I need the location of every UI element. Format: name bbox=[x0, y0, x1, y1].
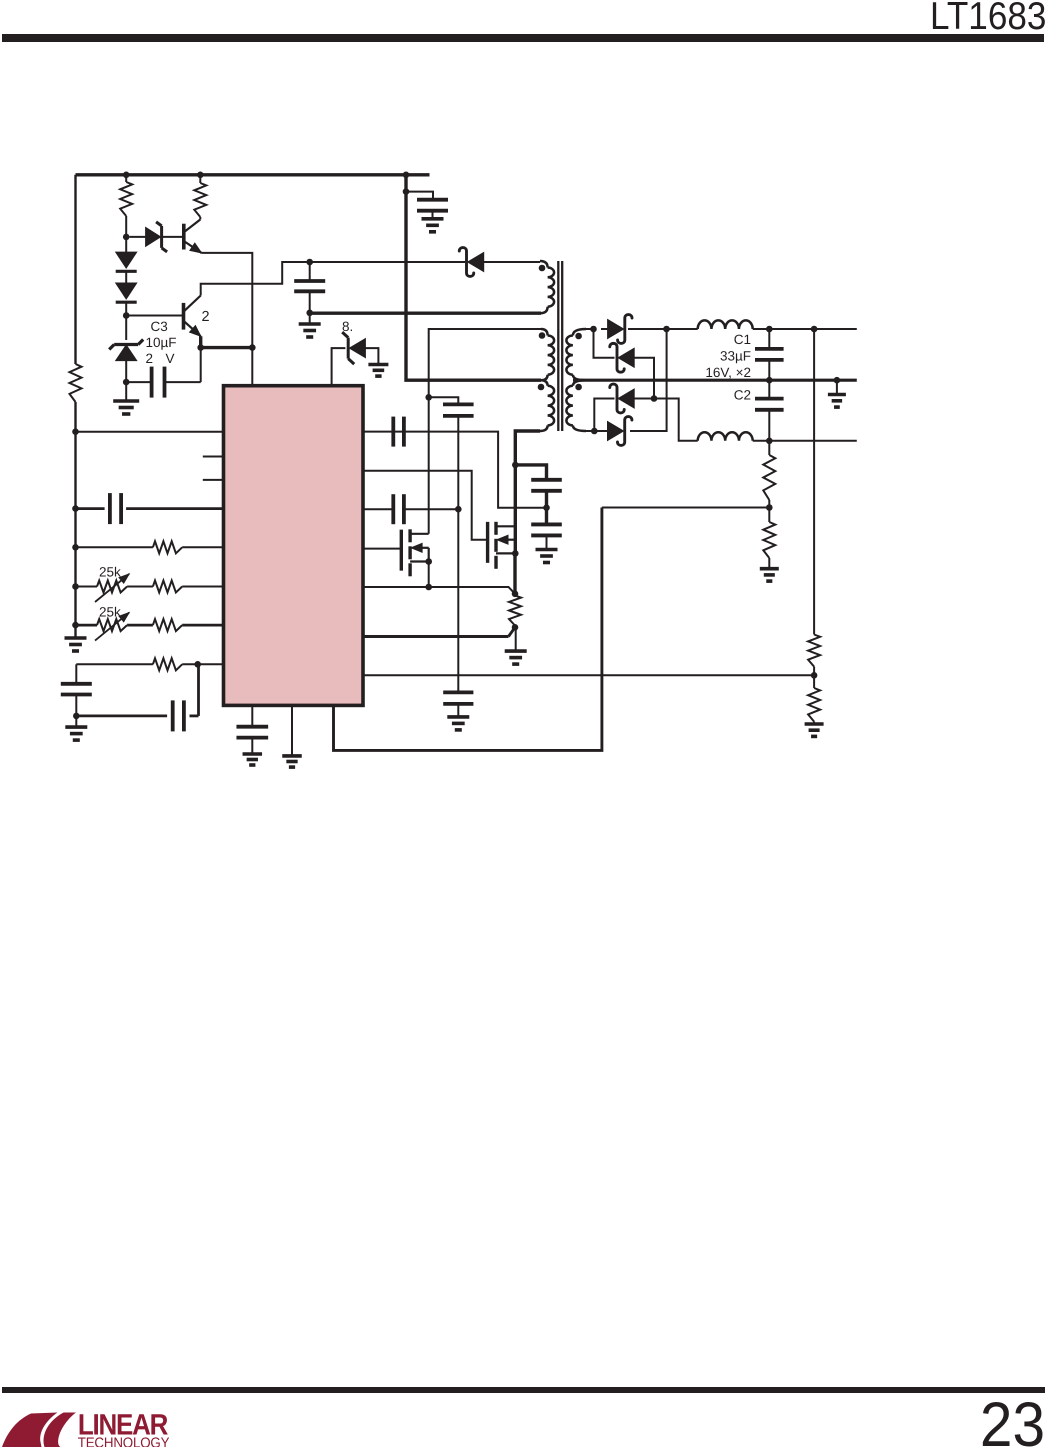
pot 25k row7 bbox=[97, 619, 127, 631]
node bus/row7 bbox=[72, 622, 79, 629]
resistor Rs bbox=[509, 596, 521, 626]
transformer winding W2 bbox=[541, 329, 548, 336]
wire M1 gate bbox=[363, 548, 401, 550]
capacitor row A bbox=[391, 417, 395, 447]
node top rail / input bypass bbox=[403, 172, 410, 179]
diode D7 bbox=[618, 389, 634, 408]
capacitor drain snubber 1 bbox=[531, 478, 562, 482]
resistor divider1 top bbox=[763, 455, 775, 500]
capacitor clamp snubber bbox=[309, 262, 311, 281]
resistor divider2 bottom bbox=[808, 688, 820, 722]
transformer winding W5 bbox=[573, 380, 586, 386]
wire M1 source down bbox=[428, 562, 430, 588]
wire sec bottom lead bbox=[586, 430, 594, 432]
node W2 damper tap bbox=[425, 394, 432, 401]
diode D5 bbox=[608, 320, 624, 339]
wire Q2 base bbox=[126, 315, 183, 317]
diode D3 bbox=[116, 283, 137, 299]
ground below zener bbox=[113, 399, 139, 403]
svg-text:10µF: 10µF bbox=[146, 335, 177, 350]
wire row D bbox=[363, 586, 429, 588]
resistor divider1 bottom bbox=[763, 522, 775, 558]
node L2 out bbox=[766, 438, 773, 445]
resistor row5 bbox=[76, 546, 153, 548]
node row8/cap bbox=[194, 661, 201, 668]
node Rs top bbox=[512, 591, 519, 598]
node bus/row6 bbox=[72, 583, 79, 590]
capacitor drain snubber 2 bbox=[531, 523, 562, 527]
ground damper chain bbox=[447, 715, 469, 719]
node bus/row1 bbox=[72, 428, 79, 435]
capacitor left RC small bbox=[76, 715, 167, 718]
ground left RC bbox=[65, 725, 87, 729]
node W4 top bbox=[590, 326, 597, 333]
node M2 source bbox=[512, 550, 519, 557]
node top rail / R2 bbox=[197, 172, 204, 179]
transformer winding W1 bbox=[540, 261, 548, 268]
svg-text:V: V bbox=[166, 351, 175, 366]
svg-text:2: 2 bbox=[202, 309, 210, 325]
wire M2 source to Rs bbox=[513, 553, 516, 593]
diode D2 bbox=[116, 252, 137, 268]
resistor R3 (left bus) bbox=[70, 364, 82, 402]
wire damper chain bbox=[457, 416, 459, 693]
resistor divider2 top bbox=[808, 635, 820, 667]
wire emitter node to IC bbox=[251, 348, 253, 386]
wire row A link bbox=[363, 432, 547, 508]
wire D7 anode to L2 bbox=[634, 399, 698, 441]
phase dot W3 bbox=[538, 384, 545, 391]
node M1 source bbox=[425, 558, 432, 565]
resistor row6 bbox=[153, 581, 182, 593]
node Rs bottom bbox=[512, 624, 519, 631]
node divider1 bbox=[766, 504, 773, 511]
wire W3 bottom to M2 drain bbox=[515, 431, 540, 553]
ground left bus bbox=[65, 636, 87, 640]
node diode chain / Q2 base bbox=[123, 312, 130, 319]
svg-text:16V, ×2: 16V, ×2 bbox=[705, 365, 751, 380]
node VIN bypass tap bbox=[403, 188, 410, 195]
inductor L2 bbox=[698, 432, 753, 441]
zener D10 bbox=[349, 339, 365, 358]
node W5 bottom bbox=[591, 428, 598, 435]
wire Q2 emitter to node bbox=[201, 336, 253, 347]
wire D7 cathode bbox=[594, 399, 614, 432]
MOSFET M2 bbox=[486, 522, 489, 563]
wire VIN vertical bbox=[406, 175, 541, 380]
pot 25k row6 bbox=[97, 581, 127, 593]
IC U1 LT1683 bbox=[224, 386, 364, 706]
footer logo Linear Technology bbox=[2, 1408, 170, 1447]
wire D6 anode bbox=[634, 358, 654, 399]
phase dot W1 bbox=[539, 265, 546, 272]
transformer winding W4 bbox=[573, 329, 586, 336]
node damper chain row C bbox=[455, 506, 462, 513]
svg-text:25k: 25k bbox=[99, 605, 121, 620]
node top rail / R1 bbox=[123, 172, 130, 179]
wire row E bbox=[363, 635, 509, 638]
phase dot W5 bbox=[575, 384, 582, 391]
svg-text:33µF: 33µF bbox=[720, 349, 751, 364]
node row D / M1 source bbox=[425, 584, 432, 591]
node bus/row5 bbox=[72, 544, 79, 551]
zener D4 bbox=[116, 345, 137, 361]
wire D6 branch bbox=[594, 329, 615, 358]
resistor row7 bbox=[153, 619, 182, 631]
svg-text:TECHNOLOGY: TECHNOLOGY bbox=[78, 1436, 170, 1447]
inductor L1 bbox=[698, 320, 753, 329]
wire divider2 mid bbox=[813, 667, 815, 688]
phase dot W2 bbox=[539, 332, 546, 339]
phase dot W4 bbox=[575, 333, 582, 340]
resistor row8 bbox=[76, 663, 153, 665]
wire left bus bbox=[74, 175, 76, 638]
node zener/C3 bbox=[123, 379, 130, 386]
svg-text:C1: C1 bbox=[734, 332, 751, 347]
capacitor input bypass bbox=[406, 192, 433, 200]
node bus/row4 bbox=[72, 505, 79, 512]
node drain snubber mid bbox=[543, 504, 550, 511]
node top rail bus bbox=[811, 326, 818, 333]
wire D8 out bbox=[630, 329, 667, 431]
wire zener anode to gnd bbox=[365, 348, 378, 364]
wire VIN top rail bbox=[76, 173, 430, 176]
wire Q1 emitter bbox=[202, 253, 253, 348]
wire sec top rail bbox=[586, 328, 594, 330]
transistor Q1 bbox=[182, 224, 186, 250]
wire divider1 link bbox=[602, 507, 769, 509]
wire FB right bbox=[363, 674, 814, 676]
capacitor row C bbox=[363, 508, 393, 510]
node divider2 FB bbox=[811, 672, 818, 679]
wire mid rail bbox=[573, 379, 857, 382]
ground divider1 bbox=[760, 567, 779, 571]
node D5 out bbox=[663, 326, 670, 333]
ground input bypass bbox=[422, 217, 444, 221]
svg-text:25k: 25k bbox=[99, 565, 121, 580]
wire low rail bbox=[753, 440, 857, 442]
capacitor C2 bbox=[768, 380, 770, 399]
node R1/zener bbox=[123, 234, 130, 241]
ground drain snubber bbox=[536, 548, 558, 552]
wire zener cathode to IC bbox=[332, 348, 346, 386]
wire IC bottom loop bbox=[334, 508, 602, 751]
wire Q2 collector bbox=[201, 262, 465, 296]
transistor Q2 bbox=[182, 303, 186, 330]
capacitor C3 bbox=[150, 367, 154, 398]
ground IC bottom 1 bbox=[243, 752, 262, 756]
ground clamp snubber bbox=[299, 322, 321, 326]
diode D8 bbox=[608, 422, 624, 441]
svg-text:2: 2 bbox=[146, 351, 154, 366]
capacitor damper bottom bbox=[443, 691, 473, 695]
wire W2 top to M1 drain bbox=[429, 329, 541, 534]
ground Rs bbox=[505, 649, 527, 653]
capacitor C1 bbox=[768, 329, 770, 349]
resistor R2 bbox=[194, 183, 206, 217]
node M2 drain snubber tap bbox=[512, 462, 519, 469]
node snubber cap top bbox=[306, 259, 313, 266]
resistor R1 bbox=[120, 182, 132, 216]
svg-text:8.: 8. bbox=[342, 319, 353, 334]
diode D6 bbox=[618, 348, 634, 367]
wire row B (M2 gate) bbox=[363, 471, 488, 540]
node L1 out bbox=[766, 326, 773, 333]
zener D1 bbox=[146, 227, 161, 246]
node emitter junction bbox=[249, 344, 256, 351]
svg-text:C2: C2 bbox=[734, 388, 751, 403]
wire pin row FB/run bbox=[76, 431, 224, 433]
node mid rail gnd tap bbox=[834, 377, 841, 384]
capacitor W2 damper bbox=[429, 397, 459, 404]
capacitor row4 bbox=[76, 507, 105, 510]
wire drain snubber top bbox=[515, 465, 546, 480]
ground divider2 bbox=[805, 722, 824, 726]
node mid rail C1C2 bbox=[766, 377, 773, 384]
node D6 D7 anode bbox=[651, 395, 658, 402]
ground mid rail bbox=[828, 393, 846, 397]
ground IC bottom 2 bbox=[291, 705, 293, 756]
wire clamp winding bottom bbox=[310, 312, 541, 315]
transformer core bbox=[557, 261, 559, 431]
node clamp snubber bottom bbox=[306, 310, 313, 317]
capacitor left RC big bbox=[75, 664, 77, 684]
wire right bus bbox=[813, 329, 815, 635]
ground zener D10 bbox=[368, 363, 388, 367]
node left RC bbox=[73, 713, 80, 720]
pin stub 1 bbox=[203, 456, 224, 458]
capacitor IC bottom bbox=[251, 705, 253, 726]
node Q2 emitter bbox=[197, 344, 204, 351]
pin stub 2 bbox=[203, 479, 224, 481]
MOSFET M1 bbox=[400, 530, 403, 571]
transformer winding W3 bbox=[541, 380, 548, 386]
svg-text:C3: C3 bbox=[151, 319, 168, 334]
diode D9 (clamp schottky) bbox=[468, 253, 484, 272]
